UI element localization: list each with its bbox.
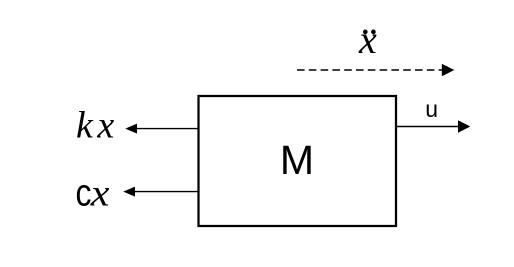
mass block M (rectangle) bbox=[199, 96, 397, 226]
acceleration arrow x-ddot (dashed, pointing right) bbox=[297, 64, 454, 77]
label x-double-dot (acceleration) bbox=[358, 17, 377, 62]
label cx bbox=[76, 172, 110, 215]
label kx bbox=[76, 105, 119, 147]
svg-text:u: u bbox=[425, 96, 438, 122]
spring force arrow kx (pointing left from box) bbox=[125, 124, 198, 134]
input force arrow u (pointing right from box) bbox=[396, 120, 470, 132]
svg-text:M: M bbox=[280, 137, 314, 183]
damper force arrow cx (pointing left from box) bbox=[123, 187, 198, 197]
svg-text:x: x bbox=[358, 17, 377, 62]
label u bbox=[425, 96, 438, 122]
label M bbox=[280, 137, 314, 183]
svg-text:kx: kx bbox=[76, 105, 119, 147]
svg-text:x: x bbox=[90, 172, 110, 215]
svg-text:c: c bbox=[76, 172, 92, 214]
